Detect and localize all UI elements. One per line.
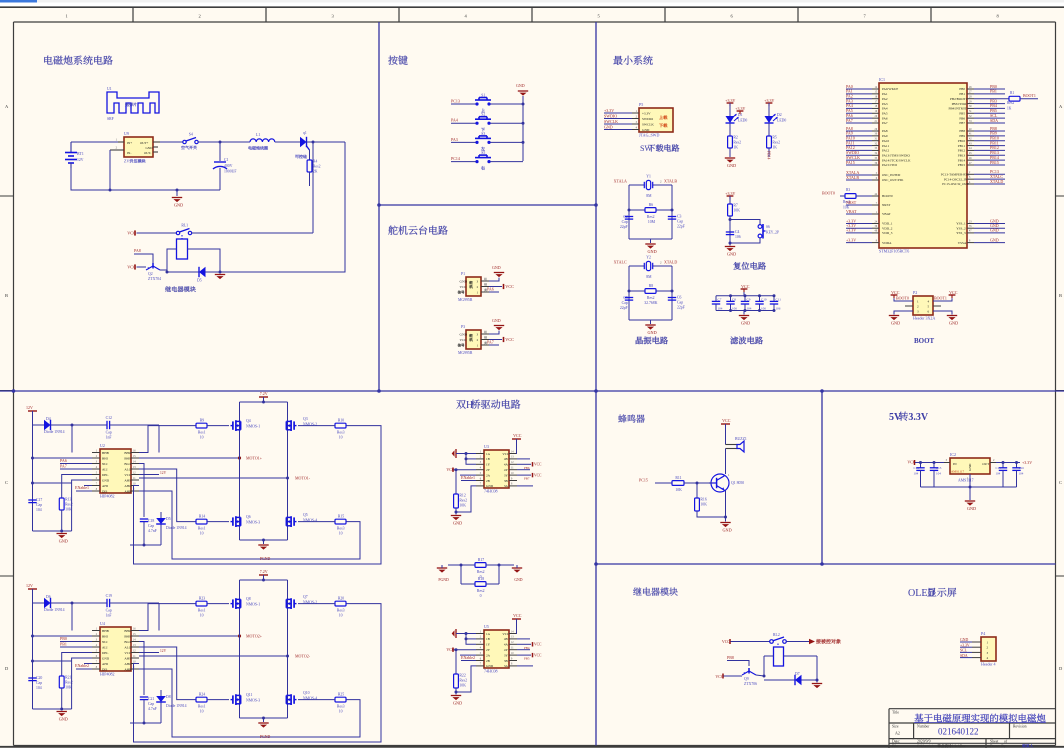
svg-text:Res1: Res1 xyxy=(198,527,206,531)
svg-text:L1: L1 xyxy=(256,133,260,137)
svg-text:C17: C17 xyxy=(36,498,42,502)
svg-text:File:: File: xyxy=(892,744,899,748)
svg-text:R18: R18 xyxy=(478,577,484,581)
svg-text:1A: 1A xyxy=(486,632,491,636)
svg-text:4A: 4A xyxy=(504,643,509,647)
svg-text:Res3: Res3 xyxy=(337,431,345,435)
svg-text:OUT-: OUT- xyxy=(144,151,151,155)
svg-text:VCC: VCC xyxy=(127,231,136,236)
svg-text:C:\Users\..\: C:\Users\..\ xyxy=(917,744,933,748)
svg-text:4Y: 4Y xyxy=(504,468,509,472)
svg-text:PB1: PB1 xyxy=(60,642,67,647)
svg-text:IC1: IC1 xyxy=(879,77,885,82)
svg-text:Size: Size xyxy=(892,725,899,729)
svg-text:104: 104 xyxy=(995,472,1000,476)
svg-text:AHO: AHO xyxy=(124,484,132,488)
svg-text:ZTX706: ZTX706 xyxy=(744,682,757,686)
svg-text:IN: IN xyxy=(953,462,957,466)
svg-text:Q6: Q6 xyxy=(246,515,251,519)
svg-text:NLI: NLI xyxy=(102,462,108,466)
svg-text:2Y: 2Y xyxy=(486,648,491,652)
svg-text:R9: R9 xyxy=(200,418,205,422)
svg-text:GND: GND xyxy=(642,128,650,132)
svg-text:q1: q1 xyxy=(303,131,307,135)
svg-text:021640122: 021640122 xyxy=(938,727,979,737)
svg-text:+3.3V: +3.3V xyxy=(764,98,774,103)
svg-text:Q4: Q4 xyxy=(246,419,251,423)
svg-text:DIS: DIS xyxy=(102,489,107,493)
svg-text:10: 10 xyxy=(339,614,343,618)
svg-text:12V: 12V xyxy=(160,649,167,653)
svg-text:106: 106 xyxy=(776,307,781,311)
svg-text:S5: S5 xyxy=(481,151,485,155)
svg-text:P3: P3 xyxy=(461,325,465,329)
svg-text:GND: GND xyxy=(727,163,736,168)
svg-text:Res2: Res2 xyxy=(733,141,741,145)
svg-text:C4: C4 xyxy=(735,230,740,234)
svg-text:U9: U9 xyxy=(124,131,129,136)
svg-text:PB7: PB7 xyxy=(524,477,530,481)
svg-text:PA15/JTDI: PA15/JTDI xyxy=(882,163,897,167)
svg-text:1000UF: 1000UF xyxy=(224,170,236,174)
svg-text:ENable1: ENable1 xyxy=(75,485,89,490)
svg-text:VCC: VCC xyxy=(534,643,542,647)
svg-text:Header 3X2A: Header 3X2A xyxy=(913,316,935,321)
svg-text:PA12: PA12 xyxy=(882,149,890,153)
svg-text:PC13-TAMPER-RTC: PC13-TAMPER-RTC xyxy=(941,173,971,177)
svg-text:S4: S4 xyxy=(189,133,193,137)
svg-text:YSS_3: YSS_3 xyxy=(956,231,966,235)
svg-text:Q3: Q3 xyxy=(303,417,308,421)
svg-text:D7: D7 xyxy=(795,672,800,676)
svg-text:PB5: PB5 xyxy=(524,657,530,661)
svg-text:Res2: Res2 xyxy=(477,570,485,574)
svg-text:GND: GND xyxy=(949,321,958,326)
svg-text:XTALB: XTALB xyxy=(664,179,677,184)
svg-text:NMOS-2: NMOS-2 xyxy=(303,601,317,605)
svg-text:MOTO2-: MOTO2- xyxy=(295,653,311,658)
svg-text:RL2: RL2 xyxy=(773,633,780,637)
svg-text:GND: GND xyxy=(59,539,68,544)
svg-text:Q7: Q7 xyxy=(303,595,308,599)
svg-text:PB9: PB9 xyxy=(959,134,965,138)
svg-text:10K: 10K xyxy=(459,504,466,508)
svg-text:VCC: VCC xyxy=(949,290,958,295)
svg-text:PA2: PA2 xyxy=(882,97,888,101)
svg-text:C9: C9 xyxy=(747,298,751,302)
svg-text:7.2V: 7.2V xyxy=(260,569,268,574)
svg-text:C: C xyxy=(5,480,8,485)
svg-text:R21: R21 xyxy=(65,676,71,680)
svg-text:Res1: Res1 xyxy=(198,705,206,709)
svg-text:NRST: NRST xyxy=(882,203,890,207)
svg-text:SWDIO: SWDIO xyxy=(642,117,654,121)
svg-text:GND: GND xyxy=(967,506,976,511)
svg-text:Res3: Res3 xyxy=(337,705,345,709)
svg-text:2Y: 2Y xyxy=(486,468,491,472)
svg-text:2A: 2A xyxy=(486,473,491,477)
svg-text:PC14: PC14 xyxy=(451,156,460,161)
svg-text:Y1: Y1 xyxy=(646,175,651,179)
svg-text:GND: GND xyxy=(990,237,999,242)
svg-text:R15: R15 xyxy=(338,514,344,518)
svg-text:PGND: PGND xyxy=(260,735,271,739)
svg-text:ALI: ALI xyxy=(102,467,108,471)
svg-text:NMOS-2: NMOS-2 xyxy=(303,423,317,427)
svg-text:ENable2: ENable2 xyxy=(461,655,475,660)
svg-text:PA7: PA7 xyxy=(882,121,888,125)
svg-text:YSS_2: YSS_2 xyxy=(956,226,966,230)
svg-text:3Y: 3Y xyxy=(504,473,509,477)
svg-text:+3.3V: +3.3V xyxy=(642,112,651,116)
svg-text:Q1 8050: Q1 8050 xyxy=(731,481,744,485)
svg-text:+3.3V: +3.3V xyxy=(846,228,856,233)
svg-text:BOOT1: BOOT1 xyxy=(1023,93,1036,98)
svg-text:2: 2 xyxy=(198,14,200,19)
svg-text:U4: U4 xyxy=(100,621,105,626)
svg-text:1K: 1K xyxy=(733,146,738,150)
svg-text:R3: R3 xyxy=(846,188,850,192)
svg-text:R20: R20 xyxy=(338,596,344,600)
svg-text:Cap: Cap xyxy=(36,681,42,685)
svg-text:PC13: PC13 xyxy=(451,99,460,104)
svg-text:104: 104 xyxy=(936,472,941,476)
svg-text:1A: 1A xyxy=(486,452,491,456)
svg-text:C8: C8 xyxy=(732,298,736,302)
svg-text:PB3/JTDO: PB3/JTDO xyxy=(952,102,967,106)
svg-text:R23: R23 xyxy=(199,596,205,600)
svg-text:BHB: BHB xyxy=(102,451,110,455)
svg-text:R11: R11 xyxy=(675,476,681,480)
svg-text:GND: GND xyxy=(990,228,999,233)
svg-text:PB13: PB13 xyxy=(958,153,966,157)
svg-text:Sheet: Sheet xyxy=(990,740,999,744)
svg-text:Q2: Q2 xyxy=(148,272,153,276)
svg-text:32.768K: 32.768K xyxy=(644,301,657,305)
svg-text:Diode 1N914: Diode 1N914 xyxy=(166,526,187,530)
svg-text:400V: 400V xyxy=(224,164,233,168)
svg-text:VDD_2: VDD_2 xyxy=(882,226,893,230)
svg-text:Res3: Res3 xyxy=(337,527,345,531)
svg-text:PA4: PA4 xyxy=(451,118,458,123)
svg-text:Cap: Cap xyxy=(106,609,112,613)
svg-text:PB12: PB12 xyxy=(958,149,966,153)
svg-text:PA6: PA6 xyxy=(882,116,888,120)
svg-text:GND: GND xyxy=(174,203,183,208)
svg-text:R13: R13 xyxy=(65,498,71,502)
svg-text:PB8: PB8 xyxy=(959,129,965,133)
svg-text:104: 104 xyxy=(36,686,42,690)
svg-text:PB1: PB1 xyxy=(959,92,965,96)
svg-text:22pF: 22pF xyxy=(620,306,628,310)
svg-text:NMOS-1: NMOS-1 xyxy=(246,603,260,607)
svg-text:8M: 8M xyxy=(646,275,652,279)
svg-text:GND: GND xyxy=(59,717,68,722)
svg-text:OUT+: OUT+ xyxy=(140,141,149,145)
svg-text:Cap: Cap xyxy=(106,431,112,435)
svg-text:KEY_2P: KEY_2P xyxy=(766,231,779,235)
svg-text:PGND: PGND xyxy=(438,578,449,582)
svg-text:AHS: AHS xyxy=(124,478,131,482)
svg-text:12V: 12V xyxy=(77,158,84,162)
svg-text:VCC: VCC xyxy=(513,433,522,438)
svg-text:XTALD: XTALD xyxy=(664,260,677,265)
svg-text:22pF: 22pF xyxy=(620,225,628,229)
svg-text:Y2: Y2 xyxy=(646,256,651,260)
svg-text:PB11: PB11 xyxy=(958,144,966,148)
svg-text:+3.3V: +3.3V xyxy=(846,237,856,242)
svg-text:C18: C18 xyxy=(148,519,154,523)
svg-text:3A: 3A xyxy=(504,664,509,668)
svg-text:PA4: PA4 xyxy=(882,107,888,111)
svg-text:12V: 12V xyxy=(26,583,33,588)
svg-text:C12: C12 xyxy=(106,416,112,420)
svg-text:NMOS-3: NMOS-3 xyxy=(246,521,260,525)
svg-text:AHI: AHI xyxy=(102,662,108,666)
svg-text:10K: 10K xyxy=(733,209,740,213)
svg-text:PB5: PB5 xyxy=(959,111,965,115)
svg-text:GND: GND xyxy=(102,656,110,660)
svg-text:GND: GND xyxy=(604,124,613,129)
svg-text:GND: GND xyxy=(460,280,468,284)
svg-text:C11: C11 xyxy=(776,298,782,302)
svg-text:GND: GND xyxy=(102,478,110,482)
svg-text:MOTO1-: MOTO1- xyxy=(295,475,311,480)
svg-text:SRF: SRF xyxy=(107,117,114,121)
svg-text:AHB: AHB xyxy=(124,489,132,493)
svg-text:C15: C15 xyxy=(936,466,942,470)
svg-text:1nF: 1nF xyxy=(106,436,112,440)
svg-text:10: 10 xyxy=(200,436,204,440)
svg-text:Revision: Revision xyxy=(1013,725,1027,729)
svg-text:1Y: 1Y xyxy=(486,463,491,467)
svg-text:BHS: BHS xyxy=(124,634,131,638)
svg-text:DEL: DEL xyxy=(102,473,108,477)
svg-text:Date:: Date: xyxy=(892,740,900,744)
svg-text:S3: S3 xyxy=(481,132,485,136)
svg-text:PC14-OSC32_IN: PC14-OSC32_IN xyxy=(944,177,968,181)
svg-text:MG995R: MG995R xyxy=(458,351,473,355)
svg-text:Header 4: Header 4 xyxy=(981,662,996,667)
svg-text:ALO: ALO xyxy=(124,467,131,471)
svg-text:PA15: PA15 xyxy=(846,160,855,165)
svg-text:10: 10 xyxy=(200,710,204,714)
svg-text:AHB: AHB xyxy=(124,667,132,671)
svg-text:PA7: PA7 xyxy=(846,118,853,123)
svg-text:D4: D4 xyxy=(46,417,51,421)
svg-text:PB1: PB1 xyxy=(990,89,997,94)
svg-text:10K: 10K xyxy=(65,686,72,690)
svg-text:+3.3V: +3.3V xyxy=(725,191,735,196)
svg-text:10M: 10M xyxy=(648,220,656,224)
svg-text:C2: C2 xyxy=(623,215,628,219)
svg-text:VCC: VCC xyxy=(534,463,542,467)
svg-text:C7: C7 xyxy=(718,298,722,302)
svg-text:2A: 2A xyxy=(486,653,491,657)
svg-text:VBAT: VBAT xyxy=(882,212,891,216)
svg-text:R4: R4 xyxy=(313,160,318,164)
svg-text:DEL: DEL xyxy=(102,651,108,655)
svg-text:R7: R7 xyxy=(733,204,738,208)
svg-text:PA11: PA11 xyxy=(882,144,889,148)
svg-text:U2: U2 xyxy=(100,443,105,448)
svg-text:1K: 1K xyxy=(1007,107,1012,111)
svg-text:PC15-OSC32_OUT: PC15-OSC32_OUT xyxy=(942,182,969,186)
svg-text:VCC: VCC xyxy=(741,284,750,289)
svg-text:R1: R1 xyxy=(1010,91,1014,95)
svg-text:D6: D6 xyxy=(46,595,51,599)
svg-text:Cap: Cap xyxy=(148,524,154,528)
svg-text:VCC: VCC xyxy=(460,285,468,289)
svg-text:Q9: Q9 xyxy=(744,677,749,681)
svg-text:PA7: PA7 xyxy=(60,464,67,469)
svg-text:GND: GND xyxy=(514,578,522,582)
svg-text:Res2: Res2 xyxy=(647,296,655,300)
svg-text:BOOT1: BOOT1 xyxy=(934,296,947,301)
svg-text:VCC: VCC xyxy=(534,473,542,477)
svg-text:Q8: Q8 xyxy=(246,597,251,601)
svg-text:2K: 2K xyxy=(313,170,318,174)
svg-text:PB10: PB10 xyxy=(958,139,966,143)
svg-text:D2: D2 xyxy=(777,113,782,117)
svg-text:0: 0 xyxy=(480,594,482,598)
svg-text:Res3: Res3 xyxy=(337,609,345,613)
svg-text:SWCLK: SWCLK xyxy=(642,123,654,127)
svg-text:PA8: PA8 xyxy=(134,248,141,253)
svg-text:Res2: Res2 xyxy=(313,165,321,169)
svg-text:VCC: VCC xyxy=(505,337,514,342)
svg-text:Diode 1N914: Diode 1N914 xyxy=(44,608,65,612)
svg-text:R16: R16 xyxy=(700,498,706,502)
svg-text:1.SchDoc: 1.SchDoc xyxy=(952,744,966,748)
svg-text:10K: 10K xyxy=(459,684,466,688)
svg-text:P1: P1 xyxy=(461,272,465,276)
svg-text:P2: P2 xyxy=(913,290,917,295)
svg-text:NMOS-3: NMOS-3 xyxy=(246,699,260,703)
svg-text:GND: GND xyxy=(492,318,501,323)
svg-text:8M: 8M xyxy=(646,194,652,198)
svg-text:Res2: Res2 xyxy=(459,499,467,503)
svg-text:ZTX704: ZTX704 xyxy=(148,277,161,281)
svg-text:BOOT0: BOOT0 xyxy=(896,296,909,301)
svg-text:C1: C1 xyxy=(224,158,229,162)
svg-text:AMS1117: AMS1117 xyxy=(951,470,964,474)
svg-text:+3.3V: +3.3V xyxy=(735,106,745,111)
svg-text:12V: 12V xyxy=(26,405,33,410)
svg-text:GND: GND xyxy=(486,664,494,668)
svg-text:DIS: DIS xyxy=(102,667,107,671)
svg-text:MG995R: MG995R xyxy=(458,298,473,302)
svg-text:PA9: PA9 xyxy=(882,134,888,138)
svg-text:Number: Number xyxy=(917,725,930,729)
svg-text:1nF: 1nF xyxy=(106,614,112,618)
svg-text:VCC: VCC xyxy=(502,632,510,636)
svg-text:IC2: IC2 xyxy=(950,452,956,457)
svg-text:3.3V: 3.3V xyxy=(908,412,929,423)
svg-text:R12: R12 xyxy=(459,494,465,498)
svg-text:Q11: Q11 xyxy=(246,693,252,697)
svg-text:4.7nF: 4.7nF xyxy=(148,707,157,711)
svg-text:VSSA: VSSA xyxy=(958,241,967,245)
svg-text:Res2: Res2 xyxy=(459,679,467,683)
svg-text:1K: 1K xyxy=(772,146,777,150)
svg-text:C16: C16 xyxy=(1019,466,1025,470)
svg-text:IN-: IN- xyxy=(127,151,131,155)
svg-text:PA3: PA3 xyxy=(882,102,888,106)
svg-text:VCC: VCC xyxy=(124,473,132,477)
svg-text:ALO: ALO xyxy=(124,645,131,649)
svg-text:R17: R17 xyxy=(478,558,484,562)
svg-text:YSS_1: YSS_1 xyxy=(956,222,966,226)
svg-text:R2: R2 xyxy=(733,136,738,140)
svg-text:PB14: PB14 xyxy=(767,151,771,160)
svg-text:PA0/WKUP: PA0/WKUP xyxy=(882,87,898,91)
svg-text:SWCLK: SWCLK xyxy=(604,119,618,124)
svg-text:Cap: Cap xyxy=(622,301,628,305)
svg-text:S2: S2 xyxy=(481,113,485,117)
svg-text:PA5: PA5 xyxy=(882,111,888,115)
svg-text:NMOS-4: NMOS-4 xyxy=(303,519,317,523)
svg-text:VCC: VCC xyxy=(513,613,522,618)
svg-text:GND: GND xyxy=(968,463,972,471)
svg-text:NRST: NRST xyxy=(846,200,857,205)
svg-text:R22: R22 xyxy=(459,674,465,678)
svg-text:GND: GND xyxy=(741,321,750,326)
svg-text:VBAT: VBAT xyxy=(846,209,857,214)
svg-text:Cap: Cap xyxy=(677,301,683,305)
svg-text:R8: R8 xyxy=(649,284,654,288)
svg-text:GND: GND xyxy=(145,146,153,150)
svg-text:BHI: BHI xyxy=(102,456,108,460)
svg-text:PC15: PC15 xyxy=(639,478,648,483)
svg-text:R14: R14 xyxy=(199,514,205,518)
svg-text:PA14/JTCK/SWCLK: PA14/JTCK/SWCLK xyxy=(882,158,911,162)
svg-text:104: 104 xyxy=(913,472,918,476)
svg-text:PA13/JTMS/SWDIO: PA13/JTMS/SWDIO xyxy=(882,153,911,157)
svg-text:GND: GND xyxy=(516,83,525,88)
svg-text:106: 106 xyxy=(732,307,737,311)
svg-text:R25: R25 xyxy=(338,692,344,696)
svg-text:PA7: PA7 xyxy=(487,340,494,345)
svg-text:10K: 10K xyxy=(675,488,682,492)
svg-text:BHI: BHI xyxy=(102,634,108,638)
svg-text:12V: 12V xyxy=(160,471,167,475)
svg-text:VCC: VCC xyxy=(127,265,136,270)
svg-text:BOOT0: BOOT0 xyxy=(882,194,893,198)
svg-text:GND: GND xyxy=(460,333,468,337)
svg-text:Res1: Res1 xyxy=(198,431,206,435)
svg-text:PB4/JNTRST: PB4/JNTRST xyxy=(948,107,966,111)
svg-text:Cap: Cap xyxy=(36,503,42,507)
svg-text:22pF: 22pF xyxy=(677,225,685,229)
svg-text:RL1: RL1 xyxy=(181,224,188,228)
svg-text:C10: C10 xyxy=(761,298,767,302)
svg-text:Q10: Q10 xyxy=(303,691,310,695)
svg-text:10: 10 xyxy=(200,614,204,618)
svg-text:XTALC: XTALC xyxy=(614,260,627,265)
svg-text:4.7nF: 4.7nF xyxy=(148,529,157,533)
svg-text:104: 104 xyxy=(747,307,752,311)
svg-text:U1: U1 xyxy=(107,87,112,91)
svg-text:GND: GND xyxy=(891,321,900,326)
svg-text:C20: C20 xyxy=(36,676,42,680)
svg-text:10K: 10K xyxy=(65,508,72,512)
svg-text:Res2: Res2 xyxy=(772,141,780,145)
svg-text:PA6: PA6 xyxy=(487,287,494,292)
svg-text:Cap: Cap xyxy=(622,220,628,224)
svg-text:3A: 3A xyxy=(504,484,509,488)
svg-text:VDD_3: VDD_3 xyxy=(882,231,893,235)
